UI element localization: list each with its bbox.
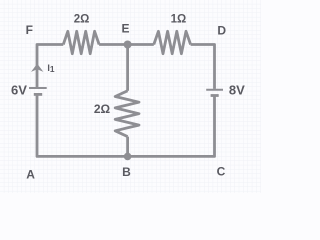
wire R3 to node B — [126, 137, 129, 157]
resistor R3 2ohm vertical — [115, 91, 139, 137]
wire 6V battery bottom to A corner to B — [37, 95, 128, 156]
svg-text:2Ω: 2Ω — [74, 13, 90, 25]
wire 8V battery bottom to C corner to B — [128, 96, 215, 156]
svg-text:I1: I1 — [47, 63, 55, 74]
svg-text:F: F — [26, 23, 33, 37]
wire R1 to node E — [99, 43, 128, 46]
battery 6V long plate — [29, 87, 47, 89]
junction dot node E — [124, 41, 132, 49]
wire node E down to R3 — [126, 45, 129, 91]
battery 8V short plate — [211, 94, 219, 97]
svg-text:E: E — [121, 22, 129, 36]
svg-text:6V: 6V — [11, 83, 27, 98]
battery 6V short plate — [34, 93, 42, 96]
resistor R2 1ohm horizontal — [154, 31, 191, 53]
battery 8V long plate — [206, 89, 223, 91]
svg-text:1Ω: 1Ω — [171, 13, 187, 25]
wire F corner: R1 left end to F to 6V battery top — [37, 45, 63, 88]
junction dot node B — [124, 153, 132, 161]
current arrow I1 — [31, 64, 43, 72]
resistor R1 2ohm horizontal — [63, 31, 99, 53]
wire R2 to D corner to 8V battery top — [191, 45, 215, 89]
svg-text:B: B — [122, 165, 131, 179]
svg-text:D: D — [217, 24, 226, 38]
svg-text:C: C — [217, 164, 226, 178]
svg-text:8V: 8V — [229, 83, 245, 98]
wire node E to R2 — [128, 43, 154, 46]
svg-text:2Ω: 2Ω — [94, 102, 111, 116]
svg-text:A: A — [26, 167, 35, 181]
